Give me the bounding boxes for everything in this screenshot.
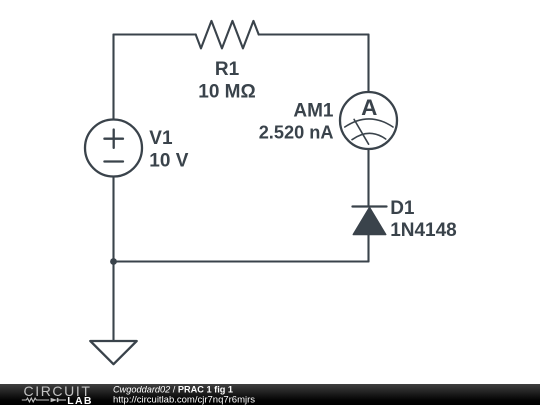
wire bottom — [114, 260, 369, 262]
svg-text:http://circuitlab.com/cjr7nq7r: http://circuitlab.com/cjr7nq7r6mjrs — [113, 394, 255, 405]
svg-text:R1: R1 — [215, 59, 240, 80]
svg-text:10 V: 10 V — [149, 150, 188, 171]
svg-text:10 MΩ: 10 MΩ — [198, 82, 255, 103]
svg-text:Cwgoddard02 / PRAC 1 fig 1: Cwgoddard02 / PRAC 1 fig 1 — [113, 385, 233, 395]
ammeter AM1 — [340, 92, 397, 149]
svg-text:1N4148: 1N4148 — [390, 220, 457, 241]
wire right lower — [367, 235, 369, 262]
diode D1 — [353, 207, 387, 235]
logo schematic squiggle — [22, 398, 66, 402]
wire left lower — [112, 177, 114, 342]
svg-text:AM1: AM1 — [293, 101, 334, 122]
svg-text:LAB: LAB — [67, 395, 92, 405]
ground — [90, 341, 136, 364]
svg-text:2.520 nA: 2.520 nA — [259, 122, 334, 142]
svg-text:A: A — [361, 95, 377, 120]
svg-text:D1: D1 — [390, 198, 415, 219]
wire top — [114, 33, 369, 35]
svg-text:V1: V1 — [149, 128, 173, 149]
wire right mid — [367, 149, 369, 206]
wire left upper — [112, 35, 114, 120]
voltage source V1 — [85, 120, 142, 177]
resistor R1 — [196, 21, 259, 49]
footer bar — [0, 384, 540, 405]
node junction — [110, 258, 117, 265]
wire right upper — [367, 35, 369, 93]
